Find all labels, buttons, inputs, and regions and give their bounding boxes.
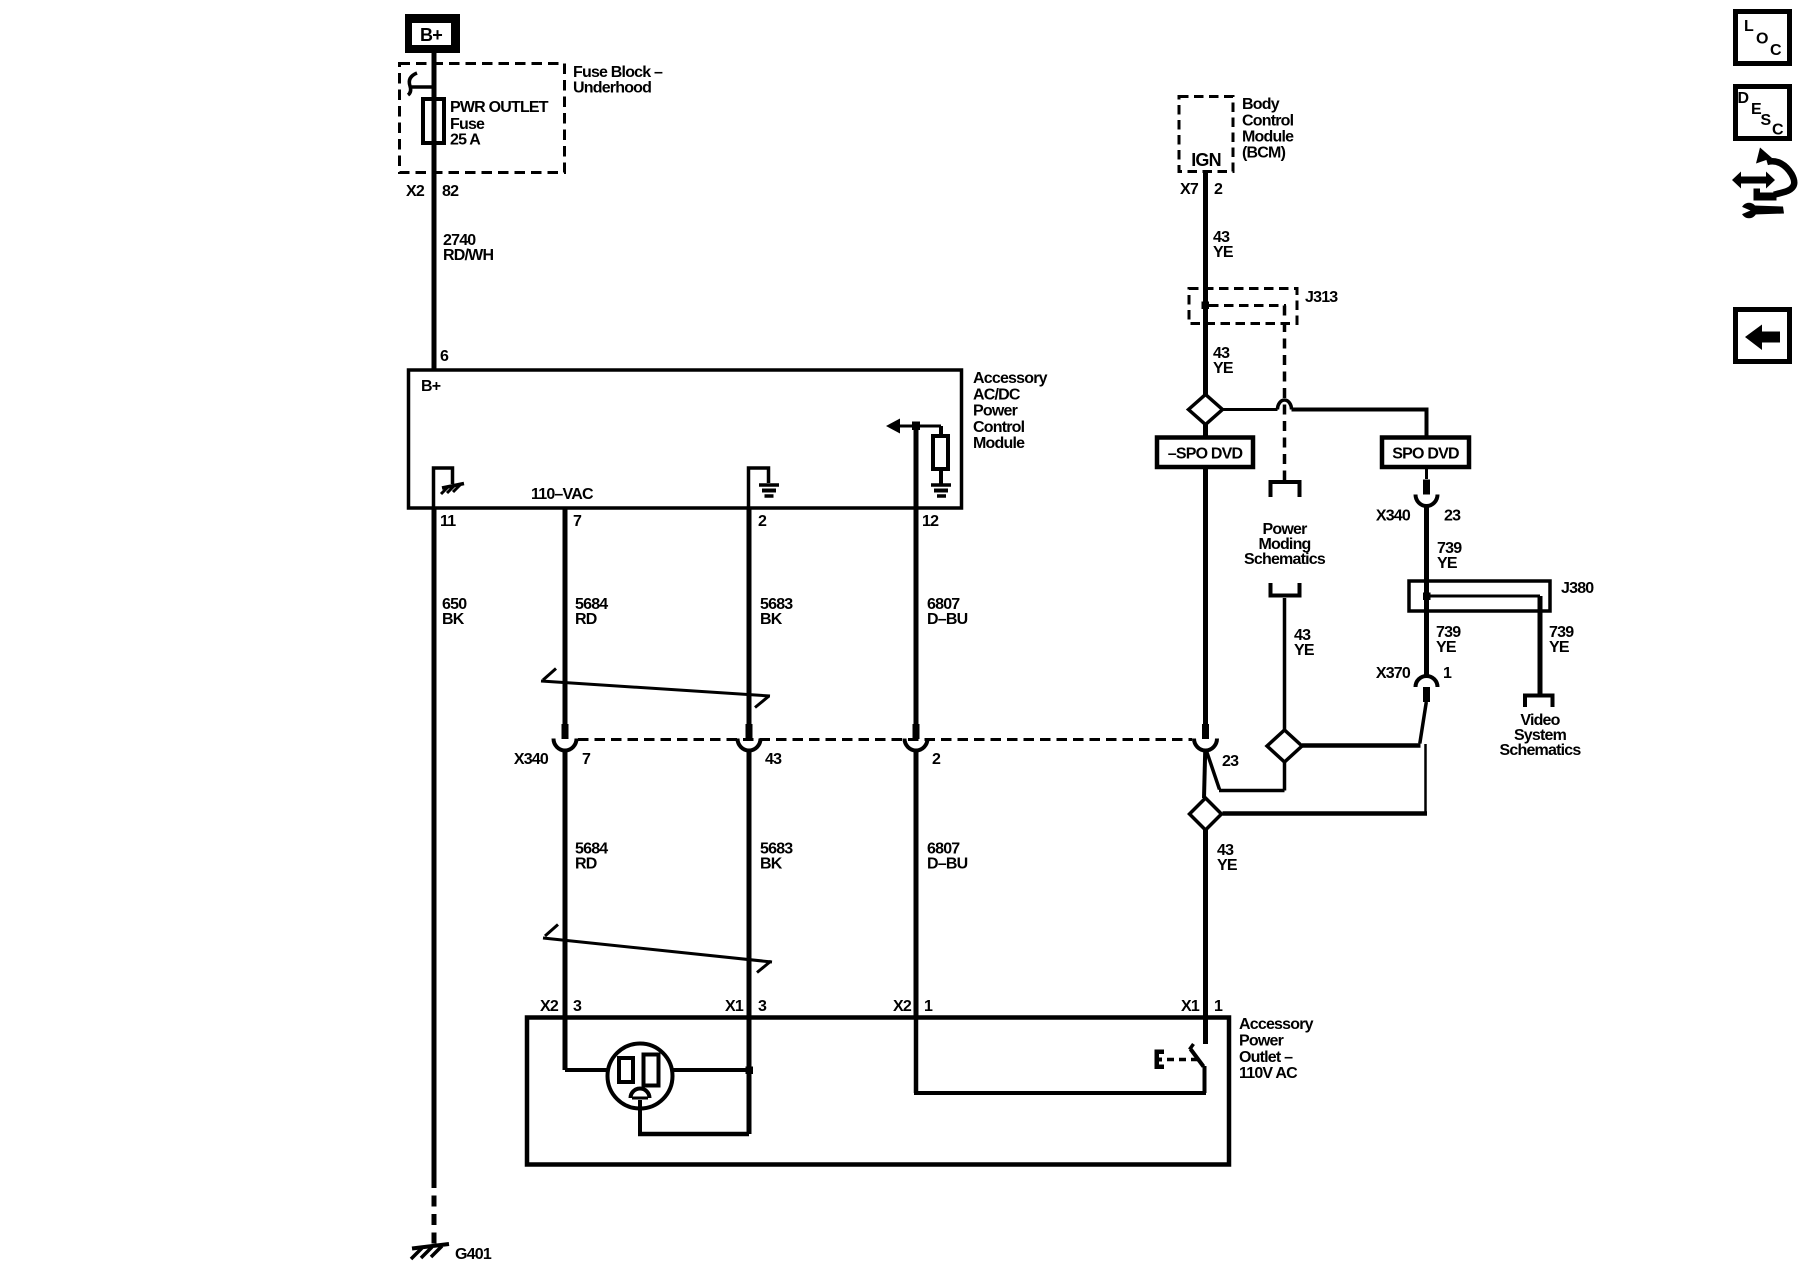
svg-text:D: D (1738, 90, 1749, 107)
power moding schematics label (1244, 521, 1326, 568)
LOC nav icon (1736, 12, 1790, 64)
svg-text:Accessory: Accessory (1239, 1016, 1314, 1033)
switch actuator label E (1155, 1050, 1200, 1070)
svg-text:25 A: 25 A (450, 132, 481, 149)
svg-text:X2: X2 (893, 998, 912, 1015)
wire label 5683 BK (lower) (760, 841, 793, 873)
switch S1 in outlet (1190, 830, 1206, 1093)
svg-text:1: 1 (1214, 998, 1223, 1015)
svg-text:Power: Power (973, 403, 1018, 420)
video system schematics label (1500, 712, 1582, 759)
svg-text:C: C (1770, 42, 1782, 59)
wire 5683 BK (lower) (747, 752, 752, 1135)
svg-text:RD: RD (575, 856, 597, 873)
connector X340 pin 23 (1194, 724, 1239, 770)
wire from X370 to diamonds (1223, 702, 1428, 814)
svg-text:3: 3 (758, 998, 767, 1015)
svg-text:(BCM): (BCM) (1242, 145, 1286, 162)
svg-text:D–BU: D–BU (927, 856, 968, 873)
svg-text:110V AC: 110V AC (1239, 1065, 1298, 1082)
fuse block label (573, 64, 663, 97)
svg-text:Fuse: Fuse (450, 116, 485, 133)
wire label 5684 RD (lower) (575, 841, 608, 873)
svg-text:AC/DC: AC/DC (973, 386, 1021, 403)
wire label 739 YE (right) (1549, 624, 1574, 656)
svg-text:YE: YE (1213, 244, 1234, 261)
module internal sense arrow (pin 12) (886, 419, 941, 509)
accessory power outlet box (527, 1018, 1229, 1165)
power moding off-page bracket (bottom) (1271, 583, 1300, 596)
splice J313 (1189, 289, 1338, 324)
wire from diamond to SPO DVD boxes (1206, 400, 1427, 438)
svg-text:YE: YE (1213, 360, 1234, 377)
wire label 650 BK (442, 596, 467, 628)
svg-text:YE: YE (1436, 639, 1457, 656)
svg-text:82: 82 (442, 183, 459, 200)
wire from B+ to module pin 6 (2740 RD/WH) (432, 53, 437, 370)
svg-text:X7: X7 (1180, 181, 1199, 198)
svg-text:YE: YE (1549, 639, 1570, 656)
svg-text:Control: Control (1242, 113, 1294, 130)
fuse block underhood dashed box (400, 64, 565, 173)
pin label 6 (440, 348, 449, 365)
receptacle outlet symbol (608, 1044, 673, 1109)
svg-text:6: 6 (440, 348, 449, 365)
svg-text:S: S (1761, 112, 1772, 129)
svg-text:7: 7 (573, 513, 582, 530)
svg-text:YE: YE (1294, 642, 1315, 659)
svg-text:Body: Body (1242, 96, 1280, 113)
svg-text:Control: Control (973, 419, 1025, 436)
svg-text:BK: BK (760, 856, 783, 873)
fuse clip hook (408, 73, 434, 95)
twisted leads symbol (lower) (543, 925, 772, 973)
module internal earth ground (pin 2) (749, 468, 780, 508)
wire 650 BK (432, 508, 437, 1244)
power moding off-page bracket (top) (1271, 482, 1300, 497)
wire label 6807 D-BU (upper) (927, 596, 968, 628)
splice J380 (1409, 580, 1594, 611)
svg-text:Module: Module (1242, 129, 1294, 146)
fuse value label (450, 99, 549, 149)
wire label 43 YE (power moding branch) (1294, 627, 1315, 659)
svg-text:J380: J380 (1561, 580, 1594, 597)
outlet internal wiring left (5684 to receptacle) (565, 1068, 608, 1072)
wire label 5684 RD (upper) (575, 596, 608, 628)
wire label 43 YE (above outlet) (1217, 842, 1238, 874)
wire 5683 BK (upper) (747, 508, 752, 725)
module pin labels 11 7 2 12 (440, 513, 939, 530)
wire from middle diamond up to power moding (1283, 598, 1287, 730)
svg-text:43: 43 (765, 751, 782, 768)
pin label X7 2 (1180, 181, 1223, 198)
video system off-page bracket (1525, 696, 1553, 708)
svg-text:23: 23 (1222, 753, 1239, 770)
svg-text:–SPO DVD: –SPO DVD (1168, 446, 1243, 463)
svg-text:IGN: IGN (1191, 150, 1221, 170)
module internal resistor R1 (933, 426, 948, 485)
module internal earth ground (resistor) (931, 485, 951, 496)
svg-text:3: 3 (573, 998, 582, 1015)
connector X340 pin 7 (554, 724, 577, 751)
svg-text:Accessory: Accessory (973, 370, 1048, 387)
svg-text:110–VAC: 110–VAC (531, 486, 594, 503)
svg-text:X370: X370 (1376, 665, 1411, 682)
svg-text:Schematics: Schematics (1244, 551, 1326, 568)
svg-text:B+: B+ (421, 378, 441, 395)
svg-text:Schematics: Schematics (1500, 742, 1582, 759)
svg-text:2: 2 (1214, 181, 1223, 198)
svg-text:SPO DVD: SPO DVD (1392, 446, 1459, 463)
svg-text:Fuse Block –: Fuse Block – (573, 64, 663, 81)
svg-text:7: 7 (582, 751, 591, 768)
svg-text:YE: YE (1217, 857, 1238, 874)
BCM dashed box (1179, 97, 1233, 172)
svg-text:D–BU: D–BU (927, 611, 968, 628)
svg-text:23: 23 (1444, 508, 1461, 525)
wire 43 YE below -SPO DVD (1203, 467, 1208, 725)
connector X340 labels (514, 751, 941, 768)
wire label 6807 D-BU (lower) (927, 841, 968, 873)
junction diamond (middle) (1267, 730, 1302, 762)
svg-text:RD: RD (575, 611, 597, 628)
wire from connector 23 to lower diamond (1204, 751, 1205, 798)
accessory power outlet label (1239, 1016, 1314, 1082)
-SPO DVD option box (1157, 438, 1253, 468)
svg-text:B+: B+ (420, 25, 442, 45)
svg-text:2: 2 (932, 751, 941, 768)
outlet ground pin loop wire (638, 1100, 749, 1134)
svg-text:PWR OUTLET: PWR OUTLET (450, 99, 549, 116)
connector X370 pin 1 (1376, 665, 1452, 702)
wire from J380 to video schematics (1538, 596, 1543, 694)
outlet pin labels X2 3 X1 3 X2 1 X1 1 (540, 998, 1223, 1015)
diagnostic tools icon (1732, 148, 1794, 219)
svg-text:X340: X340 (1376, 508, 1411, 525)
SPO DVD option box (1382, 438, 1469, 468)
svg-text:X2: X2 (540, 998, 559, 1015)
wire 43 YE from BCM (1203, 172, 1208, 395)
svg-text:X1: X1 (1181, 998, 1200, 1015)
svg-text:12: 12 (922, 513, 939, 530)
svg-text:L: L (1744, 18, 1754, 35)
svg-text:YE: YE (1437, 555, 1458, 572)
svg-text:RD/WH: RD/WH (443, 247, 493, 264)
svg-text:J313: J313 (1305, 289, 1338, 306)
pin label X2 82 (406, 183, 459, 200)
svg-text:11: 11 (440, 513, 456, 530)
connector X340 dashed line (578, 738, 1192, 741)
svg-text:X1: X1 (725, 998, 744, 1015)
module internal chassis ground (pin 11) (434, 468, 465, 508)
outlet inner box (6807 branch) (914, 1017, 1206, 1093)
connector X340 pin 43 (738, 724, 761, 751)
DESC nav icon (1736, 87, 1790, 139)
module U1 Accessory AC/DC Power Control Module box (409, 370, 962, 508)
svg-text:1: 1 (924, 998, 933, 1015)
wire label 739 YE (1) (1437, 540, 1462, 572)
module internal 110-VAC label (531, 486, 594, 503)
connector X340 pin 2 (905, 724, 928, 751)
wire label 43 YE (2) (1213, 345, 1234, 377)
svg-text:BK: BK (442, 611, 465, 628)
svg-text:Outlet –: Outlet – (1239, 1049, 1293, 1066)
wire 6807 D-BU (upper) (914, 508, 919, 725)
svg-text:Underhood: Underhood (573, 80, 651, 97)
svg-text:X2: X2 (406, 183, 425, 200)
svg-text:X340: X340 (514, 751, 549, 768)
svg-text:2: 2 (758, 513, 767, 530)
wire from connector 23 to middle diamond (1207, 751, 1285, 791)
connector X340 pin 23 (SPO DVD side) (1376, 467, 1461, 525)
junction diamond (upper) (1189, 395, 1223, 425)
wire label 2740 RD/WH (443, 232, 493, 264)
module name label (973, 370, 1048, 452)
wire label 43 YE (1) (1213, 229, 1234, 261)
junction diamond (lower) (1190, 798, 1222, 830)
svg-text:Power: Power (1239, 1033, 1284, 1050)
twisted leads symbol (upper) (541, 669, 770, 708)
svg-text:C: C (1772, 122, 1784, 139)
wire label 5683 BK (upper) (760, 596, 793, 628)
wire 5684 RD (upper) (563, 508, 568, 725)
wire label 739 YE (left) (1436, 624, 1461, 656)
svg-text:BK: BK (760, 611, 783, 628)
wire 739 YE from SPO DVD (1424, 506, 1429, 676)
dashed branch wire from J313 (1283, 306, 1287, 481)
fuse PWR OUTLET 25A (423, 99, 444, 143)
ground G401 (411, 1244, 492, 1263)
svg-text:G401: G401 (455, 1246, 492, 1263)
outlet internal wiring right (receptacle to 5683) (672, 1067, 753, 1075)
wire 6807 D-BU (lower) (914, 752, 919, 1018)
wire 5684 RD (lower) (563, 752, 568, 1071)
svg-text:O: O (1756, 31, 1768, 48)
svg-text:1: 1 (1443, 665, 1452, 682)
svg-text:Module: Module (973, 435, 1025, 452)
back arrow icon (1736, 310, 1790, 362)
B+ power symbol (405, 14, 460, 53)
BCM label (1242, 96, 1294, 162)
